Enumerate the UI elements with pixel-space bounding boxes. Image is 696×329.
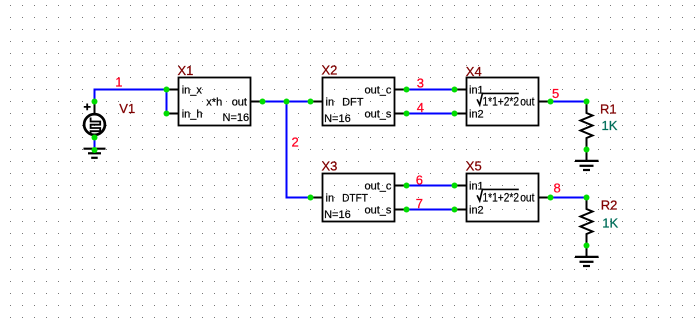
svg-text:in: in <box>326 192 335 204</box>
svg-text:X2: X2 <box>322 63 338 78</box>
svg-text:in1: in1 <box>469 84 484 96</box>
svg-text:1*1+2*2: 1*1+2*2 <box>483 95 520 109</box>
svg-text:R1: R1 <box>600 102 617 117</box>
svg-text:N=16: N=16 <box>324 113 351 125</box>
svg-text:in1: in1 <box>469 180 484 192</box>
svg-text:out_s: out_s <box>365 204 392 216</box>
svg-text:6: 6 <box>416 173 423 188</box>
svg-text:DFT: DFT <box>342 96 364 108</box>
svg-text:V1: V1 <box>119 101 135 116</box>
svg-text:in: in <box>326 96 335 108</box>
svg-text:1K: 1K <box>602 216 618 231</box>
svg-text:out_c: out_c <box>365 84 392 96</box>
svg-text:1K: 1K <box>602 118 618 133</box>
svg-text:R2: R2 <box>601 198 618 213</box>
svg-text:out_c: out_c <box>365 180 392 192</box>
svg-text:3: 3 <box>417 75 424 90</box>
svg-text:out_s: out_s <box>365 108 392 120</box>
svg-text:4: 4 <box>417 100 424 115</box>
svg-text:X1: X1 <box>178 63 194 78</box>
svg-text:7: 7 <box>416 196 423 211</box>
svg-text:1: 1 <box>115 75 122 90</box>
svg-text:X3: X3 <box>322 159 338 174</box>
svg-text:5: 5 <box>552 86 559 101</box>
svg-text:X5: X5 <box>466 159 482 174</box>
svg-text:N=16: N=16 <box>324 209 351 221</box>
svg-text:in2: in2 <box>469 204 484 216</box>
svg-text:2: 2 <box>292 135 299 150</box>
svg-text:DTFT: DTFT <box>342 192 368 204</box>
svg-text:out: out <box>232 96 247 108</box>
svg-text:in_x: in_x <box>182 84 203 96</box>
svg-text:out: out <box>520 191 535 205</box>
svg-text:in_h: in_h <box>182 108 203 120</box>
svg-text:1*1+2*2: 1*1+2*2 <box>483 191 520 205</box>
svg-text:out: out <box>520 95 535 109</box>
svg-text:x*h: x*h <box>206 96 222 108</box>
svg-text:in2: in2 <box>469 108 484 120</box>
svg-text:X4: X4 <box>466 64 482 79</box>
svg-text:N=16: N=16 <box>223 112 250 124</box>
svg-text:8: 8 <box>554 180 561 195</box>
